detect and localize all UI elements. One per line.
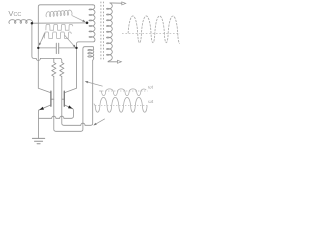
svg-text:ωt: ωt [148,84,154,89]
svg-text:ωt: ωt [148,99,154,104]
